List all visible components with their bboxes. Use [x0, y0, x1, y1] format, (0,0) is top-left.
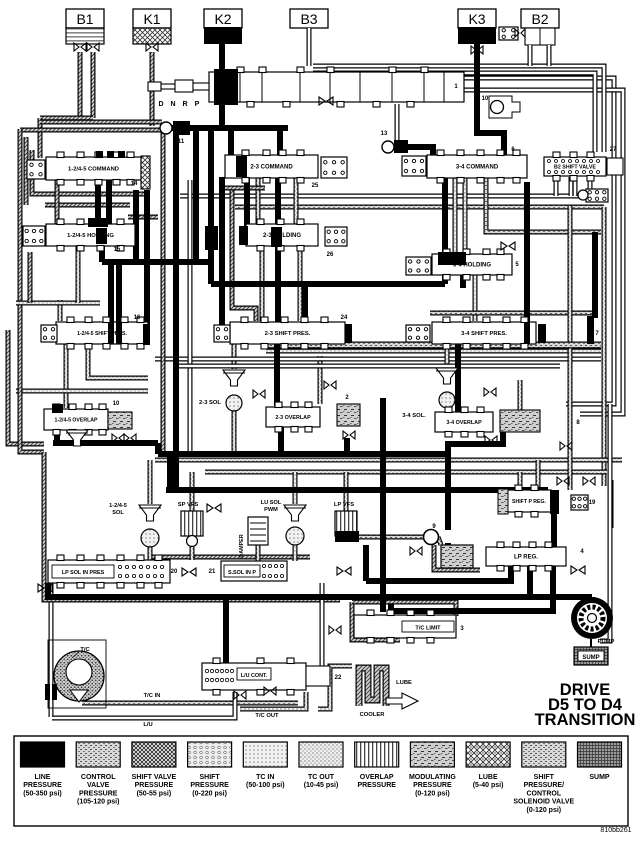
x166 drop: [167, 455, 173, 490]
svg-text:MODULATING: MODULATING: [409, 774, 456, 781]
command top tick B: [107, 151, 114, 158]
svg-text:SHIFT: SHIFT: [199, 774, 220, 781]
b2sv drop B: [573, 176, 578, 196]
number 9: [432, 524, 436, 530]
svg-text:PRESSURE: PRESSURE: [23, 782, 62, 789]
right bottom frame: [600, 404, 610, 641]
label 3-4 SOL: [402, 413, 426, 419]
2-3 holding block: [205, 226, 218, 250]
svg-text:(10-45 psi): (10-45 psi): [304, 782, 339, 789]
svg-text:TC OUT: TC OUT: [308, 774, 335, 781]
3-4 overlap orifice A: [484, 388, 496, 396]
selector D: [158, 101, 163, 108]
svg-text:11: 11: [178, 139, 185, 145]
2-3 shift pres connector: [214, 325, 230, 342]
svg-text:K2: K2: [214, 11, 231, 27]
legend swatch SHIFT: [513, 742, 574, 814]
shift p reg piston: [550, 490, 559, 514]
label COOLER: [360, 712, 386, 718]
b2sv drop A: [554, 176, 559, 196]
valve 1-2/4-5 COMMAND: [46, 152, 141, 185]
number 13: [381, 131, 388, 137]
2-3 overlap feed: [274, 344, 280, 406]
svg-text:14: 14: [131, 181, 138, 187]
legend swatch TC OUT: [299, 742, 343, 789]
selector N: [170, 101, 175, 108]
label T/C IN: [144, 693, 161, 699]
svg-text:CONTROL: CONTROL: [81, 774, 116, 781]
svg-text:2-3 HOLDING: 2-3 HOLDING: [263, 233, 301, 239]
valve LP REG: [486, 542, 566, 571]
svg-text:LP VFS: LP VFS: [334, 502, 354, 508]
left mid frame channel: [18, 215, 23, 330]
node 13 ball: [382, 141, 394, 153]
svg-text:PRESSURE: PRESSURE: [79, 790, 118, 797]
l/u cont right parts: [306, 666, 330, 686]
svg-text:COOLER: COOLER: [360, 712, 386, 718]
B1 channel to command valve: [40, 116, 93, 121]
lp reg frame ch: [434, 545, 480, 570]
svg-text:2-3 COMMAND: 2-3 COMMAND: [250, 165, 293, 171]
lp sol in pres frame: [44, 556, 340, 600]
solenoid LU SOL: [284, 505, 306, 545]
x448 to lp reg box: [445, 543, 451, 548]
svg-text:10: 10: [113, 401, 120, 407]
hatched y217 link: [128, 215, 158, 220]
right line x595: [592, 232, 598, 318]
command top tick A: [96, 151, 103, 158]
3-4 command connector: [402, 156, 426, 176]
number 8: [576, 420, 580, 426]
lp reg left feed: [363, 545, 369, 581]
valve 1-2/4-5 OVERLAP: [44, 404, 108, 435]
svg-text:N: N: [170, 101, 175, 108]
big dotted channel y351: [266, 349, 601, 354]
legend swatch MODULATING: [409, 742, 456, 797]
B1 applied-pressure box: [66, 28, 104, 44]
3-4 holding bottom stub: [460, 274, 466, 288]
2-3 overlap out: [278, 426, 284, 455]
1-2/4-5 command end block: [141, 156, 150, 189]
svg-text:L/U CONT.: L/U CONT.: [241, 673, 268, 679]
legend swatch SHIFT: [188, 742, 232, 797]
2-3 command piston: [236, 156, 247, 177]
valve S.SOL IN P: [221, 561, 287, 581]
lp reg bottom 3: [391, 566, 553, 611]
band jog x158: [155, 443, 161, 454]
svg-text:T/C OUT: T/C OUT: [255, 713, 279, 719]
svg-text:B1: B1: [76, 11, 93, 27]
B3 drop: [307, 28, 312, 66]
K1 orifice: [146, 43, 158, 51]
number 14: [131, 181, 138, 187]
svg-text:S.SOL IN P: S.SOL IN P: [228, 570, 256, 576]
number 1: [454, 84, 458, 90]
svg-text:PRESSURE/: PRESSURE/: [524, 782, 565, 789]
manual valve stem: [148, 80, 209, 92]
tc limit frame: [352, 602, 400, 640]
valve 2-3 SHIFT PRES: [230, 317, 345, 349]
node 13 line: [404, 147, 433, 156]
label LU SOL PWM: [261, 500, 282, 513]
svg-text:PWM: PWM: [264, 507, 278, 513]
svg-text:P: P: [195, 101, 200, 108]
2-3 holding connector: [325, 227, 347, 246]
svg-text:13: 13: [381, 131, 388, 137]
LP VFS out block: [335, 531, 359, 542]
svg-text:T/C IN: T/C IN: [144, 693, 161, 699]
number 11: [178, 139, 185, 145]
left dotted channel y391: [16, 389, 148, 394]
manual valve orifice: [319, 97, 333, 105]
svg-text:PRESSURE: PRESSURE: [357, 782, 396, 789]
svg-text:10: 10: [482, 96, 489, 102]
command drop x109: [106, 180, 112, 224]
number 24: [341, 315, 348, 321]
number 10b: [113, 401, 120, 407]
left frame top: [20, 330, 44, 452]
svg-text:PRESSURE: PRESSURE: [413, 782, 452, 789]
shift pres crossing bar B: [116, 322, 122, 344]
band y490: [166, 487, 548, 493]
lp reg bottom 2: [527, 566, 533, 597]
svg-text:SP VFS: SP VFS: [178, 502, 199, 508]
svg-text:LUBE: LUBE: [396, 680, 412, 686]
sump box: [574, 647, 608, 665]
mid channel y345: [266, 342, 601, 349]
valve 1-2/4-5 SHIFT PRES: [56, 317, 148, 349]
legend swatch CONTROL: [76, 742, 120, 806]
K3 line drop: [477, 44, 504, 156]
2-3 sp to overlap ch: [318, 356, 323, 404]
3-4 holding orifice: [501, 242, 515, 250]
pump feed: [589, 597, 595, 602]
valve B2 SHIFT VALVE: [544, 152, 606, 181]
left bottom frame col: [42, 452, 47, 600]
B1 channel drop right: [91, 52, 96, 118]
label DAMPER: [239, 534, 245, 557]
l/u cont label box: [237, 668, 271, 680]
B2 shift valve ports: [548, 160, 600, 174]
svg-text:L/U: L/U: [143, 722, 152, 728]
B2 shift valve ball: [578, 190, 588, 200]
3-4 shift pres end bar: [538, 324, 546, 343]
label SP VFS: [178, 502, 199, 508]
3-4 shift pres stop bar: [587, 316, 594, 344]
3-4 holding piston: [438, 252, 466, 265]
svg-text:3-4 SHIFT PRES.: 3-4 SHIFT PRES.: [461, 331, 507, 337]
left bottom vertical channel: [49, 560, 54, 717]
svg-text:LUBE: LUBE: [479, 774, 498, 781]
svg-text:PRESSURE: PRESSURE: [135, 782, 174, 789]
dotted supply channel y472: [205, 470, 607, 475]
band y284: [211, 281, 445, 287]
svg-text:19: 19: [589, 500, 596, 506]
sol ball out B: [190, 547, 195, 560]
hatched column x163: [161, 132, 166, 457]
svg-text:K1: K1: [143, 11, 160, 27]
clutch K3 label box: [458, 9, 496, 28]
s.sol orifice: [337, 567, 351, 575]
hatched cmd frame h: [222, 186, 265, 191]
command drop x98: [95, 180, 101, 226]
svg-text:1-2/4-5: 1-2/4-5: [109, 503, 127, 509]
2-3 command to 2-3 holding: [244, 177, 250, 226]
plain column x190: [188, 180, 193, 457]
label L/U: [143, 722, 152, 728]
legend swatch OVERLAP: [355, 742, 399, 789]
svg-text:(0-120 psi): (0-120 psi): [526, 807, 561, 814]
cooler serpentine: [359, 668, 386, 706]
B2 sub box: [525, 28, 555, 45]
svg-text:D: D: [158, 101, 163, 108]
legend swatch SUMP: [578, 742, 622, 781]
solenoid 1-2/4-5 SOL: [139, 505, 161, 547]
svg-text:SHIFT: SHIFT: [534, 774, 555, 781]
SP VFS solenoid body: [181, 511, 203, 547]
node 13 block: [394, 140, 408, 153]
2-3 overlap connector: [337, 404, 360, 426]
K1 channel drop: [150, 52, 155, 126]
svg-text:SUMP: SUMP: [582, 655, 599, 661]
B2 shift valve line x527: [524, 182, 530, 332]
2-3 overlap orifice B: [324, 381, 336, 389]
clutch B2 label box: [521, 9, 559, 28]
B2 check valve: [515, 29, 525, 37]
damper link: [256, 545, 261, 561]
main bottom line y597: [48, 594, 592, 600]
tc out channel: [240, 692, 306, 709]
svg-text:(105-120 psi): (105-120 psi): [77, 799, 119, 806]
K3 orifice: [471, 46, 483, 54]
label LP VFS: [334, 502, 354, 508]
holding left frame: [28, 252, 33, 303]
B2 shift valve lower connector: [586, 189, 608, 202]
svg-text:PRESSURE: PRESSURE: [190, 782, 229, 789]
number 27: [610, 147, 617, 153]
left inner frame: [24, 137, 29, 205]
title DRIVE D5 TO D4 TRANSITION: [535, 681, 636, 729]
left edge drop: [45, 583, 51, 600]
lp reg bottom 1: [366, 566, 511, 581]
lu channel: [52, 692, 235, 718]
valve 2-3 OVERLAP: [266, 402, 320, 432]
l/u cont connector: [205, 669, 233, 681]
tc limit top frame: [352, 602, 456, 616]
selector P: [195, 101, 200, 108]
B2 feed channel inner: [313, 73, 595, 152]
mid channel y366: [175, 364, 560, 369]
2-3 shift pres top feed: [302, 284, 308, 321]
svg-text:B2 SHIFT VALVE: B2 SHIFT VALVE: [554, 165, 596, 171]
l/u orifice B: [264, 687, 276, 695]
1-2/4-5 overlap vent: [66, 430, 88, 446]
line drop x196: [193, 131, 199, 262]
B1 channel down to 1-2/4-5 command: [38, 118, 43, 158]
svg-text:1-2/4-5 HOLDING: 1-2/4-5 HOLDING: [67, 233, 114, 239]
legend swatch TC IN: [243, 742, 287, 789]
number 15: [114, 247, 121, 253]
1-2/4-5 command frame ch: [32, 150, 150, 194]
3-4 holding to shift pres: [473, 274, 478, 321]
3-4 holding connector: [406, 257, 431, 275]
node 13 feed channel: [395, 104, 400, 141]
clutch B3 label box: [290, 9, 328, 28]
svg-text:16: 16: [134, 315, 141, 321]
band yB 454: [158, 451, 448, 457]
2-3 command to holding ch A: [256, 177, 261, 225]
valve 2-3 HOLDING: [246, 219, 318, 251]
manual valve output channel upper: [464, 78, 614, 404]
1-2/4-5 holding tee: [88, 218, 108, 227]
manual valve output channel outer: [464, 90, 623, 414]
B2 shift valve drop ch: [569, 177, 574, 196]
B3/B2 feed channel: [313, 66, 604, 152]
svg-text:CONTROL: CONTROL: [526, 790, 561, 797]
2-3 sol out: [232, 411, 237, 452]
sol ball out C: [293, 545, 298, 561]
mid speckle channel y311: [430, 311, 592, 316]
svg-text:DAMPER: DAMPER: [239, 534, 245, 557]
valve T/C LIMIT: [354, 610, 456, 643]
x347 stub: [344, 438, 350, 455]
lu cont feed: [223, 597, 229, 666]
lp sol orifice: [182, 568, 196, 576]
number 26: [327, 252, 334, 258]
node 11 ball: [160, 122, 172, 134]
1-2/4-5 overlap out: [54, 428, 60, 443]
header channel upper: [40, 120, 162, 125]
label 1-2/4-5 SOL: [109, 503, 127, 516]
K2 line drop: [219, 43, 225, 130]
1-2/4-5 shift pres connector: [41, 325, 57, 342]
shift p reg connector: [571, 495, 588, 510]
number 20: [171, 569, 178, 575]
svg-text:SOL: SOL: [112, 510, 124, 516]
B1 orifice right: [87, 43, 99, 51]
number 5: [515, 262, 519, 268]
3-4 sol feed ch: [445, 344, 450, 367]
svg-text:24: 24: [341, 315, 348, 321]
2-3 command top feed L: [228, 131, 234, 156]
sp vfs feed: [190, 472, 195, 513]
left frame vertical channel: [18, 129, 23, 330]
svg-text:(0-120 psi): (0-120 psi): [415, 790, 450, 797]
clutch B1 label box: [66, 9, 104, 28]
B1 orifice left: [74, 43, 86, 51]
selector R: [182, 101, 187, 108]
svg-text:22: 22: [335, 675, 342, 681]
1-2/4-5 shift pres feed frame: [58, 300, 63, 321]
lp vfs feed: [344, 472, 349, 513]
command drop x136: [133, 190, 139, 262]
lp sol in pres label box: [52, 565, 114, 578]
valve LP SOL IN PRES: [48, 555, 170, 588]
K1 applied-pressure box: [133, 28, 171, 44]
svg-text:(5-40 psi): (5-40 psi): [473, 782, 504, 789]
right side speckle vertical: [602, 207, 607, 486]
3-4 sp to overlap: [455, 344, 461, 412]
holding drop x102: [99, 246, 105, 262]
number 2: [345, 395, 349, 401]
3-4 shift pres crossing bar: [524, 322, 530, 344]
valve 3-4 COMMAND: [427, 150, 527, 183]
B2 drop right: [547, 45, 552, 66]
right dotted column x566: [568, 206, 573, 490]
tc limit orifice: [329, 626, 341, 634]
s.sol detail: [262, 564, 283, 577]
svg-text:20: 20: [171, 569, 178, 575]
solenoid out channel y537: [359, 535, 424, 540]
tc limit feed: [388, 604, 394, 616]
band y262: [102, 259, 211, 265]
svg-text:26: 26: [327, 252, 334, 258]
holding below frame: [76, 246, 81, 303]
valve 3-4 SHIFT PRES: [432, 317, 536, 349]
ball check 9: [424, 530, 439, 545]
shift p reg left block: [498, 489, 508, 514]
band drop x119: [116, 262, 122, 322]
lp reg orifice: [571, 566, 585, 574]
B2 shift valve right box: [607, 158, 623, 175]
K3 line-pressure box: [458, 27, 496, 44]
svg-text:LU SOL: LU SOL: [261, 500, 282, 506]
2-3 command down x222: [219, 177, 225, 340]
lp reg feed channel: [438, 537, 441, 545]
svg-text:SUMP: SUMP: [589, 774, 610, 781]
2-3 command connector: [321, 157, 347, 178]
svg-text:PUMP: PUMP: [598, 639, 615, 645]
right dotted stub x611: [609, 480, 614, 528]
shift p reg orifice A: [557, 477, 569, 485]
svg-text:(50-100 psi): (50-100 psi): [246, 782, 285, 789]
line drop x176: [173, 135, 179, 490]
line drop x211: [208, 131, 214, 284]
svg-text:1-2/4-5 OVERLAP: 1-2/4-5 OVERLAP: [55, 418, 98, 424]
1-2/4-5 holding piston: [96, 228, 107, 244]
solenoid 3-4 SOL: [436, 368, 458, 408]
valve 2-3 COMMAND: [225, 150, 318, 183]
dotted supply channel y460: [155, 458, 622, 463]
2-3 overlap orifice A: [253, 390, 265, 398]
B2 drop left: [528, 45, 533, 66]
3-4 command to holding ch: [453, 177, 458, 253]
pump: [571, 597, 613, 639]
manual valve piston: [214, 69, 238, 105]
solenoid 2-3 SOL: [223, 370, 245, 411]
svg-text:T/C LIMIT: T/C LIMIT: [415, 626, 441, 632]
command row channel pair: [180, 194, 600, 199]
command below frame: [45, 203, 130, 208]
command drop x147: [144, 190, 150, 330]
label T/C: [80, 647, 90, 653]
tc in channel: [82, 701, 298, 706]
svg-text:3-4 SOL.: 3-4 SOL.: [402, 413, 426, 419]
band drop x111: [108, 262, 114, 322]
ball 9 orifice: [410, 547, 422, 555]
svg-text:SOLENOID VALVE: SOLENOID VALVE: [513, 799, 574, 806]
number 7: [595, 331, 599, 337]
svg-text:VALVE: VALVE: [87, 782, 110, 789]
label 2-3 SOL: [199, 400, 221, 406]
damper body: [248, 517, 268, 545]
s.sol label box: [224, 565, 260, 577]
label PUMP: [598, 639, 615, 645]
svg-text:OVERLAP: OVERLAP: [360, 774, 394, 781]
torque converter: [45, 640, 106, 708]
number 3: [460, 626, 464, 632]
svg-text:3-4 OVERLAP: 3-4 OVERLAP: [446, 420, 482, 426]
